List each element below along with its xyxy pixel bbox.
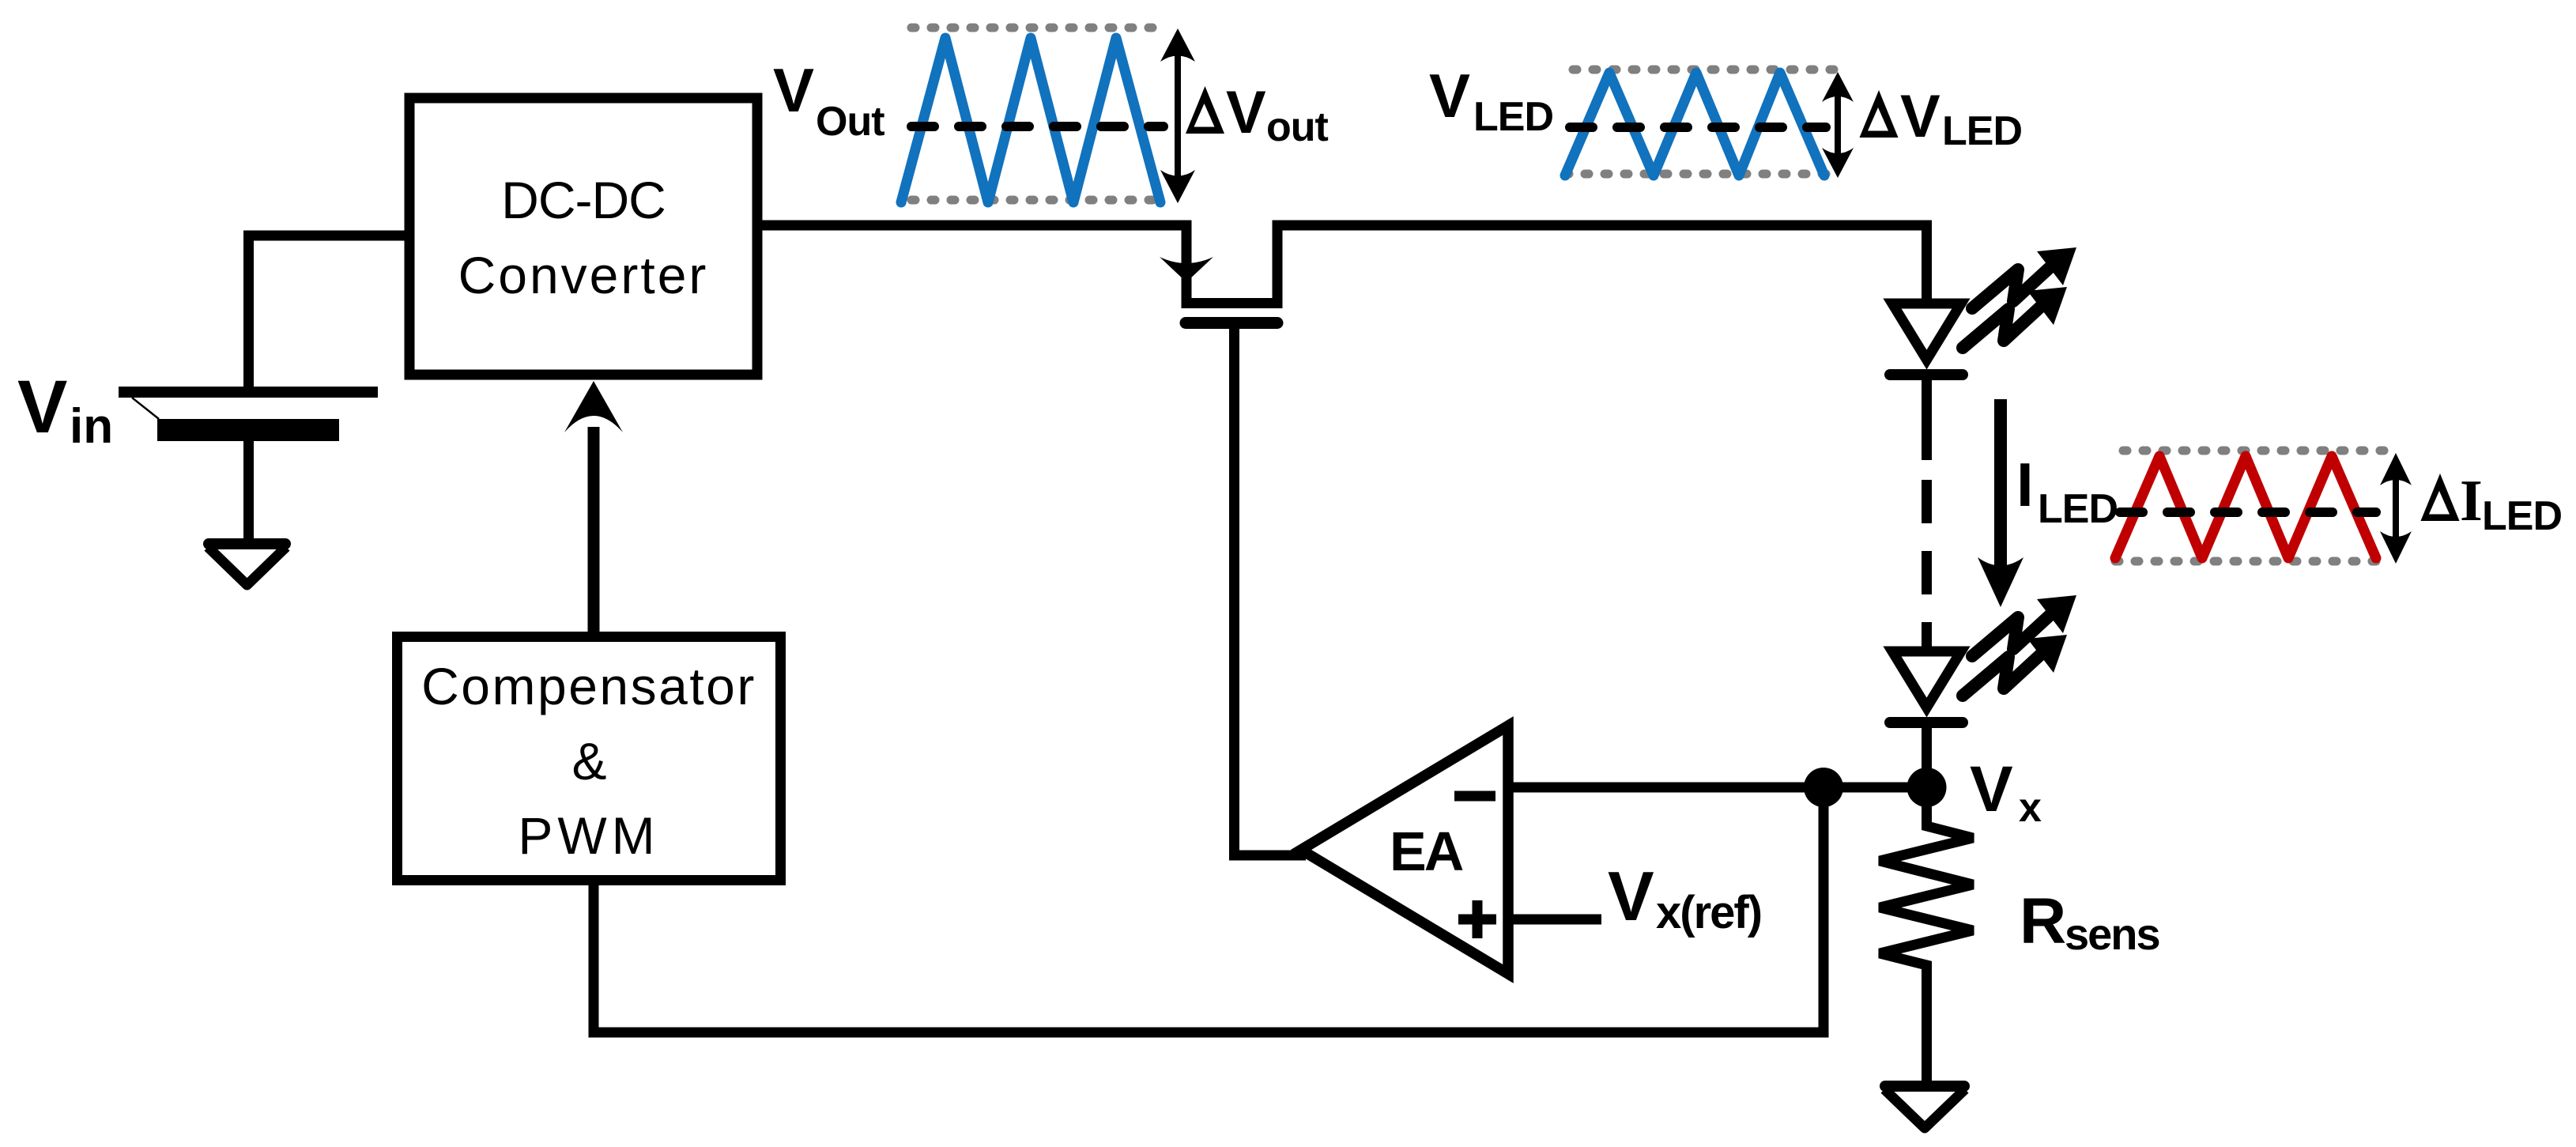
svg-text:DC-DC: DC-DC (501, 171, 666, 229)
svg-text:V: V (773, 55, 814, 125)
svg-text:Out: Out (816, 99, 884, 145)
battery Vin top plate (119, 387, 378, 398)
wire Vin battery to DC-DC input (249, 236, 407, 389)
dimension arrow delta ILED (2380, 453, 2412, 564)
current arrow ILED (1978, 399, 2023, 607)
waveform VLED average black dashed (1570, 123, 1826, 132)
wire battery to ground (243, 441, 254, 544)
dimension arrow delta VLED (1822, 72, 1854, 178)
waveform VLED lower bound gray dashed (1565, 170, 1834, 179)
LED D1 emission arrows (1963, 247, 2076, 348)
label VLED (1429, 61, 1553, 140)
svg-text:in: in (70, 399, 113, 454)
svg-text:sens: sens (2065, 909, 2159, 959)
compensator and PWM block (398, 637, 781, 881)
wire EA output to transistor gate (1235, 323, 1307, 855)
svg-text:V: V (1900, 83, 1940, 150)
arrowhead control to DC-DC (564, 381, 623, 432)
ground GND2 (1884, 1086, 1965, 1128)
svg-text:EA: EA (1390, 821, 1463, 882)
svg-text:V: V (1970, 753, 2013, 825)
label leader line Vin (132, 398, 159, 419)
svg-text:x: x (2019, 785, 2042, 831)
waveform ILED average black dashed (2120, 507, 2376, 517)
LED D2 emission arrows (1963, 595, 2076, 696)
label Rsens (2020, 885, 2159, 959)
label delta Vout (1186, 79, 1329, 150)
LED D2 (1890, 651, 1963, 787)
waveform VOut upper bound gray dashed (911, 24, 1166, 32)
waveform VOut average black dashed (911, 122, 1164, 131)
wire DC-DC output Vout node (757, 221, 1187, 231)
svg-text:LED: LED (1942, 108, 2022, 154)
svg-text:V: V (1226, 79, 1266, 146)
svg-text:LED: LED (2482, 493, 2562, 539)
node junction dot feedback (1804, 768, 1843, 807)
label Vin (17, 365, 113, 454)
wire EA inverting input to node Vx (1511, 783, 1926, 793)
op-amp EA (1301, 726, 1508, 974)
waveform ILED lower bound gray dashed (2115, 557, 2386, 566)
DC-DC converter block (409, 98, 757, 375)
svg-text:I: I (2016, 450, 2034, 519)
svg-text:&: & (571, 732, 605, 790)
node Vx junction dot (1907, 768, 1947, 807)
dimension arrow delta VOut (1160, 28, 1195, 203)
label delta VLED (1860, 83, 2023, 154)
svg-text:Converter: Converter (458, 246, 709, 304)
svg-text:V: V (17, 365, 67, 449)
wire compensator to DC-DC control (588, 427, 600, 640)
waveform VLED ripple blue triangle wave (1565, 73, 1824, 175)
svg-text:V: V (1608, 857, 1654, 935)
svg-text:Compensator: Compensator (421, 657, 756, 715)
svg-text:out: out (1266, 104, 1329, 150)
svg-text:x(ref): x(ref) (1656, 887, 1761, 938)
svg-text:LED: LED (2038, 486, 2118, 532)
wire EA non-inverting input (1511, 915, 1601, 925)
waveform VOut lower bound gray dashed (911, 196, 1167, 205)
waveform VLED upper bound gray dashed (1573, 66, 1834, 74)
svg-text:V: V (1429, 61, 1470, 130)
svg-text:I: I (2460, 469, 2483, 534)
transistor M1 PMOS pass device (1160, 221, 1283, 323)
label Vx (1970, 753, 2042, 831)
svg-text:PWM: PWM (518, 806, 659, 865)
resistor Rsens (1880, 797, 1973, 1086)
svg-text:LED: LED (1473, 94, 1553, 140)
label ILED (2016, 450, 2118, 532)
label VOut (773, 55, 884, 145)
svg-text:R: R (2020, 885, 2066, 957)
wire dashed LED string (1922, 480, 1932, 647)
wire transistor to LED anode (1273, 225, 1927, 300)
label Vx(ref) (1608, 857, 1761, 938)
label delta ILED (2421, 469, 2563, 539)
wire feedback Vx to compensator (594, 797, 1824, 1032)
ground GND1 (208, 544, 286, 585)
waveform ILED ripple red triangle wave (2115, 456, 2376, 558)
waveform VOut ripple blue triangle wave (901, 38, 1160, 202)
waveform ILED upper bound gray dashed (2123, 447, 2386, 455)
LED D1 (1890, 304, 1963, 460)
battery Vin bottom plate (157, 419, 339, 441)
